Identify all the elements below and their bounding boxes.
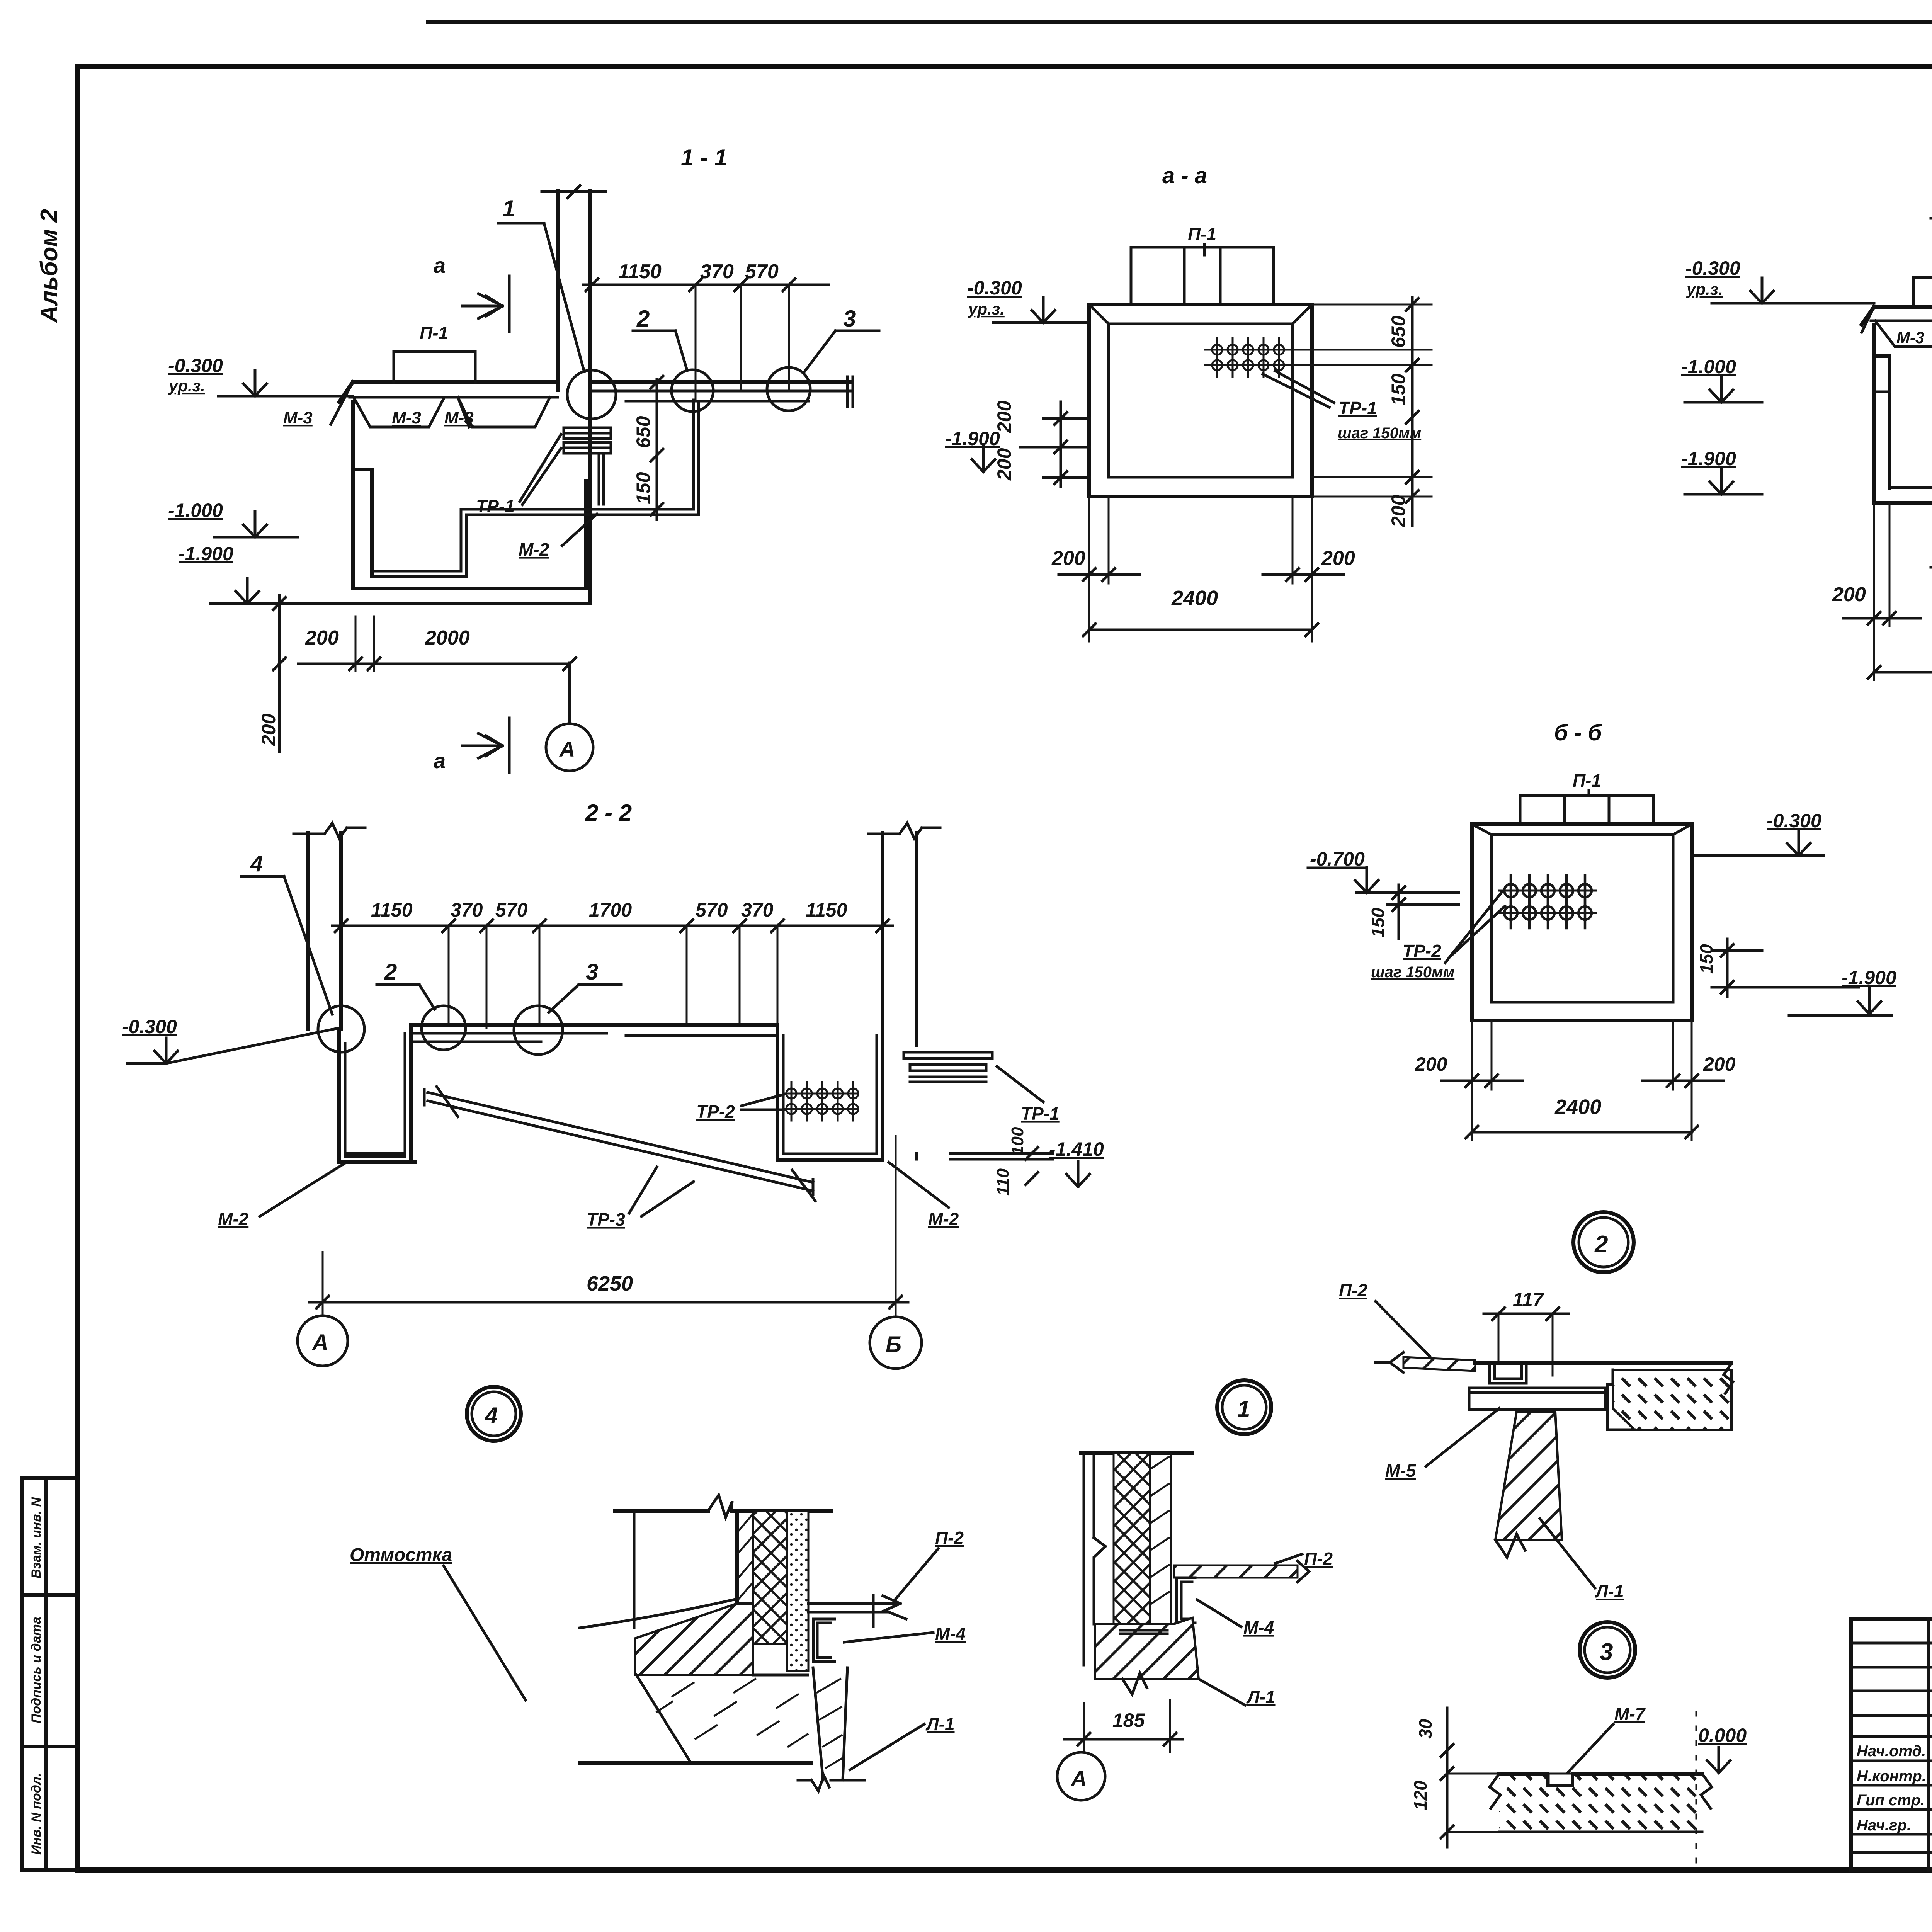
svg-text:ур.з.: ур.з. bbox=[1686, 280, 1723, 298]
detail circle 2 bbox=[1573, 1212, 1634, 1272]
svg-text:2: 2 bbox=[1594, 1231, 1608, 1258]
svg-text:Альбом 2: Альбом 2 bbox=[36, 209, 63, 323]
right extension lines bbox=[1291, 304, 1432, 497]
svg-text:П-1: П-1 bbox=[1188, 224, 1216, 244]
svg-text:3: 3 bbox=[1600, 1639, 1613, 1665]
svg-text:Нач.гр.: Нач.гр. bbox=[1857, 1817, 1911, 1834]
top dim line bbox=[332, 925, 893, 927]
svg-text:Л-1: Л-1 bbox=[1595, 1581, 1624, 1601]
svg-text:200: 200 bbox=[1832, 583, 1866, 606]
wall inner leaf dash-hatch band bbox=[1150, 1453, 1171, 1624]
left margin stamp boxes bbox=[22, 1478, 77, 1870]
svg-text:200: 200 bbox=[258, 713, 279, 746]
svg-text:200: 200 bbox=[1051, 547, 1085, 570]
right column bbox=[883, 833, 917, 1045]
pit inner lining М-2 bbox=[373, 455, 604, 577]
svg-text:Гип стр.: Гип стр. bbox=[1857, 1792, 1925, 1809]
svg-text:М-5: М-5 bbox=[1385, 1461, 1417, 1481]
right slab hatched bbox=[1613, 1370, 1731, 1430]
svg-text:2: 2 bbox=[384, 959, 397, 985]
svg-text:-1.900: -1.900 bbox=[945, 428, 1000, 449]
ТР-1 label with leaders bbox=[1263, 371, 1334, 407]
svg-text:3: 3 bbox=[586, 959, 598, 985]
svg-text:570: 570 bbox=[696, 899, 728, 921]
М-4 bracket bbox=[1177, 1578, 1195, 1623]
dim 2400 bbox=[1089, 629, 1312, 631]
svg-text:Л-1: Л-1 bbox=[1246, 1687, 1276, 1707]
channel box inner bbox=[1089, 304, 1312, 477]
svg-text:-1.000: -1.000 bbox=[1681, 356, 1736, 378]
svg-text:шаг 150мм: шаг 150мм bbox=[1338, 425, 1421, 442]
slab plate П-1 bbox=[394, 352, 475, 382]
svg-text:ур.з.: ур.з. bbox=[168, 377, 205, 395]
pier hatched bbox=[1495, 1412, 1562, 1540]
wall dim 200 right bbox=[1263, 573, 1344, 576]
svg-text:М-4: М-4 bbox=[935, 1624, 966, 1644]
wall dim 200 left bbox=[1059, 573, 1140, 576]
dashed line right bbox=[1696, 1712, 1697, 1866]
wall insulation cross-hatch band bbox=[1114, 1453, 1150, 1624]
svg-text:а: а bbox=[434, 748, 446, 773]
extension lines bbox=[696, 285, 789, 400]
node circle 4 bbox=[318, 1006, 364, 1052]
left column bbox=[308, 833, 341, 1029]
svg-text:0.000: 0.000 bbox=[1698, 1725, 1747, 1746]
svg-text:ТР-1: ТР-1 bbox=[1338, 398, 1377, 418]
svg-text:6250: 6250 bbox=[587, 1272, 633, 1295]
left pit bbox=[339, 1025, 415, 1162]
title block outer bbox=[1851, 1619, 1932, 1870]
svg-text:П-2: П-2 bbox=[1304, 1549, 1333, 1569]
channel box outer bbox=[1089, 304, 1312, 497]
svg-text:П-2: П-2 bbox=[935, 1528, 964, 1548]
wall left lines with break bbox=[1084, 1453, 1105, 1665]
М-4 channel bracket bbox=[813, 1619, 835, 1662]
Л-1 wedge pier bbox=[798, 1668, 864, 1791]
axis circle А bbox=[298, 1316, 348, 1366]
svg-text:200: 200 bbox=[1415, 1053, 1447, 1075]
М-5 channel bbox=[1490, 1366, 1526, 1383]
svg-text:М-2: М-2 bbox=[928, 1209, 959, 1229]
soil dashes under bbox=[636, 1675, 808, 1763]
svg-text:30: 30 bbox=[1415, 1719, 1435, 1739]
svg-text:1 - 1: 1 - 1 bbox=[681, 145, 727, 170]
svg-text:4: 4 bbox=[485, 1403, 498, 1429]
ТР-1 rails right bbox=[904, 1052, 992, 1082]
top plates bbox=[1520, 796, 1653, 824]
svg-text:П-1: П-1 bbox=[420, 323, 448, 343]
svg-text:Взам. инв. N: Взам. инв. N bbox=[29, 1497, 44, 1578]
top plates bbox=[1131, 247, 1274, 304]
svg-text:650: 650 bbox=[1388, 315, 1409, 348]
svg-text:Н.контр.: Н.контр. bbox=[1857, 1768, 1926, 1785]
svg-text:110: 110 bbox=[993, 1168, 1012, 1196]
node circle 2 bbox=[672, 370, 713, 412]
svg-text:4: 4 bbox=[250, 851, 263, 876]
detail circle 3 bbox=[1580, 1622, 1635, 1678]
channel floor right bbox=[461, 400, 699, 515]
svg-text:Подпись и дата: Подпись и дата bbox=[29, 1617, 44, 1723]
svg-text:150: 150 bbox=[1388, 373, 1409, 406]
ceiling line with break bbox=[615, 1509, 831, 1513]
svg-text:-0.300: -0.300 bbox=[967, 277, 1022, 299]
anchor grid ТР-1 bbox=[1205, 350, 1291, 365]
svg-text:120: 120 bbox=[1410, 1781, 1430, 1810]
svg-text:ТР-1: ТР-1 bbox=[1021, 1104, 1060, 1124]
extension verticals bbox=[449, 926, 777, 1028]
П-2 plate hatched band bbox=[1174, 1565, 1298, 1578]
svg-text:2000: 2000 bbox=[425, 627, 470, 649]
svg-text:Отмостка: Отмостка bbox=[350, 1545, 452, 1565]
svg-text:-1.900: -1.900 bbox=[179, 543, 233, 565]
box inner bbox=[1472, 824, 1692, 1002]
М-3 mark 1 bbox=[331, 382, 444, 427]
svg-text:А: А bbox=[311, 1330, 328, 1355]
svg-text:М-2: М-2 bbox=[218, 1209, 249, 1229]
svg-text:Инв. N подл.: Инв. N подл. bbox=[29, 1773, 44, 1855]
bottom wall dims bbox=[1472, 1020, 1692, 1090]
svg-text:150: 150 bbox=[633, 472, 654, 504]
svg-text:б - б: б - б bbox=[1554, 720, 1602, 745]
dim 150 left bbox=[1398, 885, 1400, 939]
title block left grid bbox=[1851, 1619, 1932, 1870]
footing hatched bbox=[1095, 1618, 1199, 1679]
right channel lines bbox=[917, 1153, 1053, 1159]
svg-text:185: 185 bbox=[1112, 1709, 1145, 1731]
wall left face bbox=[633, 1511, 636, 1628]
svg-text:-1.000: -1.000 bbox=[168, 500, 223, 521]
svg-text:ТР-2: ТР-2 bbox=[696, 1102, 735, 1122]
svg-text:М-7: М-7 bbox=[1614, 1704, 1646, 1724]
svg-text:1150: 1150 bbox=[618, 260, 662, 283]
svg-text:ТР-3: ТР-3 bbox=[587, 1209, 625, 1230]
svg-text:М-3: М-3 bbox=[283, 408, 313, 427]
dim 150 right bbox=[1726, 939, 1729, 997]
svg-text:а - а: а - а bbox=[1162, 163, 1207, 188]
node circle 3 bbox=[767, 367, 810, 411]
bottom 200 dims bbox=[1874, 503, 1932, 626]
dim 2400 bbox=[1472, 1131, 1692, 1134]
П-1 plate bbox=[1913, 277, 1932, 306]
dim 650/150 vertical bbox=[656, 379, 658, 520]
svg-text:М-4: М-4 bbox=[1243, 1617, 1274, 1638]
anchor plate under wall bbox=[1120, 1630, 1167, 1634]
svg-text:570: 570 bbox=[495, 899, 528, 921]
ТР-1 rail stack bbox=[564, 428, 611, 453]
svg-text:2: 2 bbox=[636, 306, 650, 332]
excavation bottom line bbox=[277, 602, 590, 605]
left dims 30/120 bbox=[1446, 1708, 1449, 1847]
floor slab left of column bbox=[339, 382, 558, 402]
svg-text:370: 370 bbox=[700, 260, 734, 283]
slab band hatched bbox=[1499, 1774, 1702, 1832]
anchor grid bbox=[1499, 891, 1596, 913]
pit walls bbox=[1874, 325, 1932, 503]
svg-text:Л-1: Л-1 bbox=[925, 1714, 955, 1734]
svg-text:-0.300: -0.300 bbox=[1685, 257, 1740, 279]
svg-text:100: 100 bbox=[1008, 1127, 1027, 1155]
отмостка slope curve bbox=[580, 1599, 737, 1628]
node circle 3 bbox=[514, 1006, 563, 1054]
svg-text:200: 200 bbox=[1321, 547, 1355, 570]
svg-text:ТР-2: ТР-2 bbox=[1403, 941, 1441, 961]
sheet top edge line bbox=[428, 20, 1932, 24]
svg-text:-0.300: -0.300 bbox=[1767, 810, 1821, 832]
svg-text:а: а bbox=[434, 253, 446, 277]
М-3 mark 2 bbox=[458, 397, 550, 427]
svg-text:200: 200 bbox=[993, 400, 1015, 433]
detail circle 1 bbox=[1217, 1380, 1271, 1434]
axis circle А bbox=[546, 724, 593, 771]
wall layer 1 (brick hatch) bbox=[735, 1511, 739, 1603]
svg-text:117: 117 bbox=[1513, 1289, 1544, 1310]
svg-text:1150: 1150 bbox=[371, 899, 413, 921]
right vertical dims 650/150/200 bbox=[1411, 298, 1414, 526]
svg-text:шаг 150мм: шаг 150мм bbox=[1371, 964, 1454, 981]
svg-text:200: 200 bbox=[993, 448, 1015, 481]
floor slab left bbox=[1862, 307, 1932, 325]
left vertical dim 200 bbox=[278, 595, 281, 752]
dim 2400 bbox=[1874, 671, 1932, 674]
node circle 1 bbox=[567, 370, 616, 419]
floor top line bbox=[1475, 1361, 1731, 1365]
svg-text:П-1: П-1 bbox=[1573, 770, 1601, 791]
svg-text:-0.300: -0.300 bbox=[168, 355, 223, 376]
svg-text:П-2: П-2 bbox=[1339, 1280, 1367, 1300]
svg-text:370: 370 bbox=[741, 899, 774, 921]
svg-text:2 - 2: 2 - 2 bbox=[585, 800, 632, 826]
svg-text:1: 1 bbox=[502, 196, 515, 221]
svg-text:А: А bbox=[559, 737, 575, 761]
svg-text:-1.900: -1.900 bbox=[1681, 448, 1736, 469]
right pit bbox=[777, 1028, 883, 1160]
axis circle Б bbox=[870, 1317, 922, 1369]
asphalt wedge hatched bbox=[635, 1604, 753, 1675]
bottom dim 6250 bbox=[309, 1301, 908, 1304]
pit left wall bbox=[353, 402, 372, 588]
svg-text:370: 370 bbox=[451, 899, 483, 921]
pit bottom bbox=[353, 481, 586, 588]
М-3 mark 1 bbox=[1862, 307, 1932, 347]
svg-text:200: 200 bbox=[1703, 1053, 1736, 1075]
svg-text:М-3: М-3 bbox=[444, 408, 474, 427]
box outer bbox=[1472, 824, 1692, 1020]
svg-text:1: 1 bbox=[1237, 1396, 1250, 1422]
svg-text:А: А bbox=[1070, 1766, 1087, 1791]
floor slab between pits bbox=[411, 1023, 777, 1027]
М-7 notch channel bbox=[1542, 1774, 1578, 1786]
П-2 plate hatched slanted bbox=[1403, 1357, 1475, 1371]
channel top right of column bbox=[590, 380, 852, 384]
svg-text:-1.900: -1.900 bbox=[1842, 967, 1896, 988]
svg-text:2400: 2400 bbox=[1554, 1095, 1601, 1119]
svg-text:М-3: М-3 bbox=[392, 408, 421, 427]
anchor grid right pit bbox=[784, 1094, 856, 1109]
svg-text:ТР-1: ТР-1 bbox=[476, 496, 515, 516]
column break line top bbox=[542, 190, 606, 193]
ground bottom line bbox=[580, 1761, 811, 1765]
svg-text:Нач.отд.: Нач.отд. bbox=[1857, 1743, 1926, 1760]
right column break bbox=[869, 823, 940, 838]
svg-text:150: 150 bbox=[1696, 944, 1716, 974]
svg-text:-1.410: -1.410 bbox=[1049, 1138, 1104, 1160]
svg-text:М-2: М-2 bbox=[519, 539, 549, 560]
column wall bbox=[558, 191, 590, 604]
svg-text:Б: Б bbox=[886, 1332, 901, 1357]
svg-text:2400: 2400 bbox=[1171, 587, 1218, 610]
svg-text:1150: 1150 bbox=[806, 899, 847, 921]
svg-text:1700: 1700 bbox=[589, 899, 632, 921]
left column break bbox=[294, 823, 365, 838]
detail circle 4 bbox=[467, 1387, 521, 1441]
bottom extension lines bbox=[1089, 497, 1312, 641]
node circle 2 bbox=[422, 1006, 466, 1050]
П-2 plate arrow right bbox=[808, 1595, 906, 1627]
svg-text:200: 200 bbox=[305, 627, 339, 649]
svg-text:М-3: М-3 bbox=[1896, 328, 1924, 347]
axis circle А bbox=[1057, 1752, 1105, 1800]
wall layer 3 dotted bbox=[787, 1511, 808, 1671]
svg-text:200: 200 bbox=[1388, 495, 1409, 527]
sloped rails ТР-3 bbox=[424, 1087, 815, 1201]
top dim line 1150/370/570 bbox=[583, 284, 829, 286]
bottom dim 200/2000 bbox=[298, 663, 570, 665]
svg-text:ур.з.: ур.з. bbox=[968, 300, 1005, 318]
svg-text:150: 150 bbox=[1368, 908, 1388, 937]
support plate bbox=[1469, 1388, 1605, 1410]
svg-text:-0.300: -0.300 bbox=[122, 1016, 177, 1037]
svg-text:3: 3 bbox=[843, 306, 856, 332]
top line bbox=[1081, 1451, 1192, 1455]
svg-text:570: 570 bbox=[745, 260, 779, 283]
wall layer 2 insulation cross-hatch bbox=[753, 1511, 787, 1644]
svg-text:650: 650 bbox=[633, 416, 654, 448]
